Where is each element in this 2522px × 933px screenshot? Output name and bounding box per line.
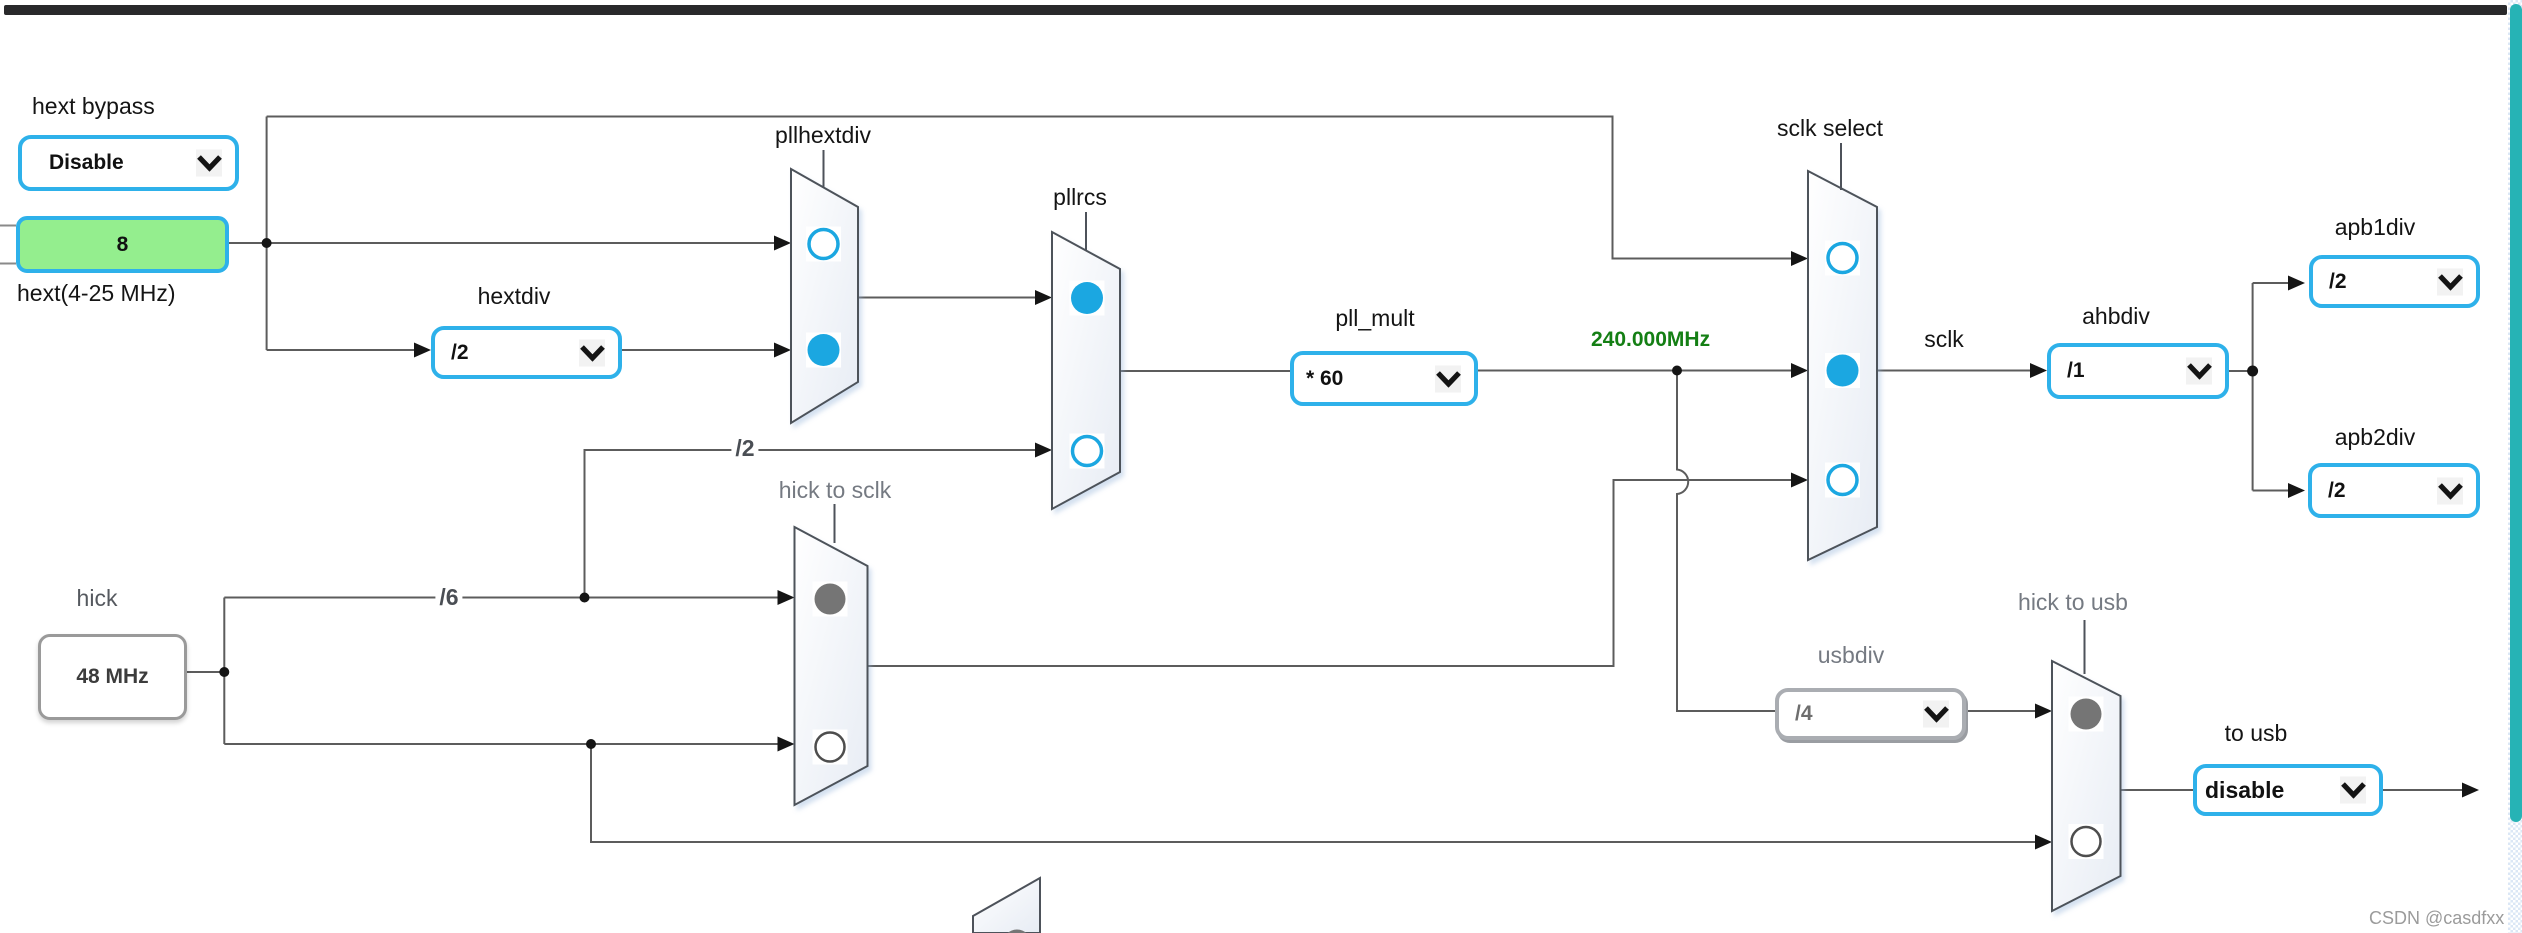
label apb1div bbox=[2335, 216, 2416, 239]
wire hextdiv to pllhextdiv input 2 bbox=[620, 349, 776, 351]
label hext(4-25 MHz) bbox=[17, 282, 175, 305]
mux sclk select tick bbox=[1840, 143, 1842, 190]
wire hext input stub bottom bbox=[0, 263, 16, 265]
wire usbdiv output to hick-to-usb input 1 bbox=[1962, 710, 2036, 712]
arrowhead into hick-to-usb input 1 bbox=[2035, 704, 2052, 719]
label apb2div bbox=[2335, 426, 2416, 449]
node hick source 48 MHz box bbox=[38, 634, 187, 720]
label to usb bbox=[2225, 722, 2288, 745]
dropdown apb2div /2 bbox=[2308, 463, 2480, 518]
wire hext box output to junction bbox=[229, 242, 267, 244]
label usbdiv bbox=[1818, 644, 1884, 667]
mux hick-to-sclk tick bbox=[834, 504, 836, 543]
junction dot /6-/2 bbox=[580, 593, 590, 603]
label hext bypass bbox=[32, 95, 155, 118]
arrowhead into hick-to-sclk input 1 bbox=[778, 590, 795, 605]
radio pllhextdiv option 2 (selected) bbox=[808, 334, 840, 366]
junction dot hext bbox=[262, 238, 272, 248]
arrowhead into pllrcs input 1 bbox=[1035, 290, 1052, 305]
arrowhead into pllhextdiv input 1 bbox=[774, 236, 791, 251]
radio pllrcs option 1 (selected) bbox=[1071, 282, 1103, 314]
dropdown hextdiv /2 bbox=[431, 326, 622, 379]
label hick bbox=[77, 587, 118, 610]
arrowhead usb final output bbox=[2462, 783, 2479, 798]
dropdown pll_mult * 60 bbox=[1290, 351, 1478, 406]
mux hick-to-usb tick bbox=[2084, 620, 2086, 674]
radio pllrcs option 2 (empty) bbox=[1073, 437, 1102, 466]
wire pll output vertical with hop to usbdiv bbox=[1677, 371, 1779, 712]
label ahbdiv bbox=[2082, 305, 2150, 328]
arrowhead into pllhextdiv input 2 bbox=[774, 343, 791, 358]
watermark CSDN bbox=[2369, 909, 2504, 927]
wire ahbdiv output to apb junction bbox=[2229, 370, 2253, 372]
label pll_mult bbox=[1335, 307, 1414, 330]
wire hick-to-sclk output to sclk select input 3 bbox=[868, 480, 1793, 666]
wire hext to hextdiv bbox=[267, 349, 416, 351]
mux hick-to-usb body bbox=[2052, 661, 2121, 911]
wire hext input stub top bbox=[0, 225, 16, 227]
wire to apb1div bbox=[2253, 282, 2289, 284]
label pllrcs bbox=[1053, 186, 1107, 209]
label sclk select bbox=[1777, 117, 1883, 140]
radio pllhextdiv option 1 (empty) bbox=[809, 230, 838, 259]
label hextdiv bbox=[478, 285, 551, 308]
arrowhead into apb1div bbox=[2288, 276, 2305, 291]
net label 240.000MHz bbox=[1591, 329, 1710, 350]
radio hick-to-sclk option 1 (selected gray) bbox=[815, 584, 846, 615]
wire hick vertical bbox=[223, 598, 225, 745]
arrowhead into hextdiv bbox=[414, 343, 431, 358]
mux pllhextdiv body bbox=[791, 169, 858, 423]
scrollbar track (checker) bbox=[2508, 0, 2522, 933]
arrowhead into sclk select input 1 bbox=[1791, 251, 1808, 266]
radio sclk select option 1 (empty) bbox=[1828, 244, 1857, 273]
wire disable box to usb output arrow bbox=[2381, 789, 2462, 791]
wire hick bottom long run to hick-to-usb input 2 bbox=[591, 744, 2036, 842]
junction dot hick bbox=[219, 667, 229, 677]
label hick to usb bbox=[2018, 591, 2128, 614]
wire hick box output to junction bbox=[185, 671, 224, 673]
arrowhead into ahbdiv bbox=[2030, 363, 2047, 378]
wire hick direct to hick-to-sclk input 2 bbox=[224, 743, 778, 745]
wire /2 divider net to pllrcs input 2 bbox=[585, 450, 1038, 598]
wire pllrcs output to pll_mult bbox=[1120, 370, 1294, 372]
junction dot hick bottom bbox=[586, 739, 596, 749]
wire to apb2div bbox=[2253, 490, 2289, 492]
arrowhead into pllrcs input 2 bbox=[1035, 443, 1052, 458]
net label /6 bbox=[435, 586, 462, 609]
mux pllrcs tick bbox=[1085, 212, 1087, 250]
junction dot pll output bbox=[1672, 366, 1682, 376]
wire sclk output to ahbdiv bbox=[1877, 370, 2031, 372]
node hext source green box bbox=[16, 216, 229, 273]
mux sclk select body bbox=[1808, 171, 1877, 560]
wire hext top long run to sclk select bbox=[267, 117, 1792, 259]
radio hick-to-usb option 2 (empty gray) bbox=[2072, 827, 2101, 856]
dropdown apb1div /2 bbox=[2309, 255, 2480, 308]
radio white backplates bbox=[806, 227, 2104, 860]
scrollbar thumb teal bbox=[2510, 4, 2522, 822]
label sclk bbox=[1924, 328, 1964, 351]
wire pllhextdiv output to pllrcs input 1 bbox=[858, 297, 1037, 299]
mux pllrcs body bbox=[1052, 232, 1120, 509]
mux hick-to-sclk body bbox=[795, 527, 868, 805]
wire hext junction to pllhextdiv input 1 bbox=[267, 242, 776, 244]
arrowhead into apb2div bbox=[2288, 483, 2305, 498]
arrowhead into sclk select input 2 bbox=[1791, 363, 1808, 378]
dropdown hext bypass Disable bbox=[18, 135, 239, 191]
arrowhead into sclk select input 3 bbox=[1791, 473, 1808, 488]
top black bar bbox=[4, 5, 2507, 15]
arrowhead into hick-to-usb input 2 bbox=[2035, 835, 2052, 850]
label pllhextdiv bbox=[775, 124, 871, 147]
wire /6 net to hick-to-sclk input 1 bbox=[224, 597, 778, 599]
dropdown ahbdiv /1 bbox=[2047, 343, 2229, 399]
wire apb vertical bbox=[2252, 283, 2254, 491]
wire pll_mult output to sclk select input 2 bbox=[1476, 370, 1792, 372]
radio hick-to-usb option 1 (selected gray) bbox=[2071, 699, 2102, 730]
wire hick-to-usb output to disable box bbox=[2121, 789, 2198, 791]
dropdown usbdiv /4 bbox=[1775, 688, 1966, 740]
arrowhead into hick-to-sclk input 2 bbox=[778, 737, 795, 752]
mux pllhextdiv tick bbox=[823, 150, 825, 188]
wire hext vertical riser bbox=[266, 117, 268, 351]
radio hick-to-sclk option 2 (empty gray) bbox=[816, 733, 845, 762]
radio partial mux gray peek bbox=[1003, 930, 1032, 933]
junction dot ahb output bbox=[2247, 366, 2258, 377]
mux partial bottom body bbox=[973, 878, 1040, 933]
radio sclk select option 2 (selected) bbox=[1827, 355, 1859, 387]
radio sclk select option 3 (empty) bbox=[1828, 466, 1857, 495]
net label /2 bbox=[731, 437, 758, 460]
dropdown to usb disable bbox=[2193, 764, 2383, 816]
label hick to sclk bbox=[779, 479, 891, 502]
